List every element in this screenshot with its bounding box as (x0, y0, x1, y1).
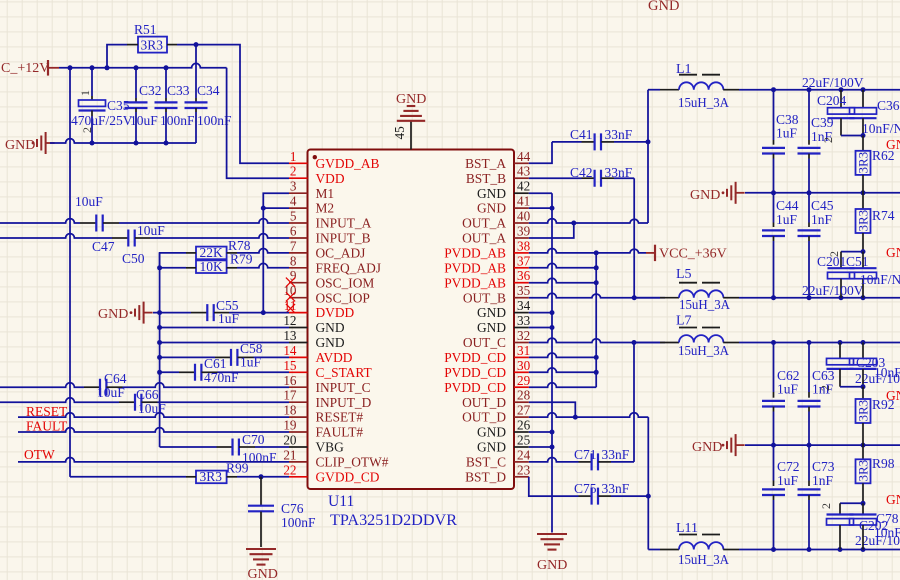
inductor L11 15uH_3A (660, 521, 739, 567)
svg-text:OC_ADJ: OC_ADJ (316, 246, 366, 261)
pin 2 (VDD) (289, 164, 345, 186)
wire GND return line (50, 139, 196, 143)
svg-text:GND: GND (690, 188, 720, 203)
power port VCC_+36V (646, 245, 727, 262)
wire R78 left (160, 253, 186, 268)
svg-text:1uF: 1uF (777, 473, 799, 488)
svg-text:1nF: 1nF (811, 212, 833, 227)
no-ERC mark pin 11 (286, 304, 295, 313)
svg-text:10uF: 10uF (130, 113, 158, 128)
svg-text:L5: L5 (676, 267, 692, 282)
svg-text:C44: C44 (776, 198, 799, 213)
wire OUT_B pin 35 to L5 (529, 293, 665, 300)
capacitor C201 22uF/100V electrolytic (802, 249, 869, 298)
svg-text:12: 12 (283, 313, 296, 328)
wire OUT_C pin 32 to L7 (529, 338, 665, 345)
node right GND rail junctions (550, 206, 555, 450)
svg-text:C42: C42 (570, 165, 593, 180)
pin 10 (OSC_IOP) (283, 283, 370, 305)
resistor R99 3R3 (186, 461, 249, 484)
svg-text:13: 13 (283, 328, 297, 343)
resistor R79 10K (186, 252, 253, 274)
svg-text:100nF: 100nF (281, 515, 316, 530)
svg-text:23: 23 (517, 462, 531, 477)
pin 26 (GND) (477, 418, 531, 440)
svg-text:GND: GND (477, 305, 506, 320)
capacitor C204 22uF/100V electrolytic (802, 75, 864, 143)
svg-text:PVDD_CD: PVDD_CD (444, 350, 506, 365)
capacitor C44 1uF (762, 193, 799, 298)
svg-text:C50: C50 (122, 251, 145, 266)
pin 32 (OUT_C) (463, 328, 530, 350)
wire R78 right to OC_ADJ pin 7 (237, 249, 289, 253)
node GND row junctions (771, 190, 866, 195)
svg-text:38: 38 (517, 238, 531, 253)
wire BST_D pin 23 jog (529, 477, 579, 496)
capacitor C51 10nF/NPO (850, 252, 900, 298)
svg-text:3R3: 3R3 (855, 152, 870, 174)
svg-text:31: 31 (517, 343, 530, 358)
svg-text:1nF: 1nF (812, 473, 834, 488)
ground GND mid-left (98, 302, 153, 324)
svg-text:C_+12V: C_+12V (1, 61, 49, 76)
capacitor C33 100nF (155, 68, 196, 143)
pin 16 (INPUT_C) (283, 373, 370, 395)
pin 27 (OUT_D) (462, 403, 530, 425)
pin 11 (DVDD) (284, 298, 355, 320)
net label FAULT (26, 419, 68, 434)
net label G (clipped) bottom (886, 492, 900, 507)
svg-text:OUT_A: OUT_A (462, 216, 506, 231)
pin 40 (OUT_A) (462, 209, 530, 231)
pin 29 (PVDD_CD) (444, 373, 530, 395)
pin 35 (OUT_B) (463, 283, 531, 305)
pin 3 (M1) (289, 179, 334, 201)
wire VDD pin 2 to +12V bus (227, 68, 289, 178)
pin 39 (OUT_A) (462, 224, 530, 246)
node top rail junctions (771, 87, 866, 92)
svg-text:C47: C47 (92, 239, 115, 254)
wire OUT_C rail (739, 342, 900, 344)
svg-text:10nF/N: 10nF/N (860, 272, 900, 287)
svg-text:GND: GND (316, 320, 345, 335)
svg-text:C51: C51 (846, 254, 869, 269)
svg-text:GN: GN (886, 137, 900, 152)
svg-text:1: 1 (290, 149, 297, 164)
svg-text:20: 20 (283, 433, 297, 448)
svg-text:BST_D: BST_D (465, 469, 506, 484)
wire M1 pin 3 (263, 193, 289, 208)
IC value TPA3251D2DDVR (330, 512, 458, 529)
svg-text:30: 30 (517, 358, 531, 373)
svg-text:21: 21 (283, 447, 296, 462)
svg-text:22uF/100V: 22uF/100V (802, 75, 864, 90)
wire C204/C36 node (841, 133, 866, 138)
svg-text:VBG: VBG (316, 440, 345, 455)
svg-text:C72: C72 (777, 459, 800, 474)
svg-text:OUT_C: OUT_C (463, 335, 506, 350)
wire C75 right to OUT_D (611, 495, 648, 497)
svg-text:VCC_+36V: VCC_+36V (659, 246, 727, 261)
svg-text:PVDD_CD: PVDD_CD (444, 365, 506, 380)
svg-text:C73: C73 (812, 459, 835, 474)
wire GND row mid-right (745, 192, 900, 194)
svg-text:10nF: 10nF (874, 365, 900, 380)
svg-text:22K: 22K (200, 245, 224, 260)
pin 5 (INPUT_A) (289, 209, 372, 231)
wire GND pin 12 (157, 325, 289, 330)
capacitor C32 10uF (125, 68, 162, 143)
net label G (clipped) lower (886, 388, 900, 403)
pin 17 (INPUT_D) (283, 388, 371, 410)
wire R51 left to bus (107, 45, 127, 68)
pin 15 (C_START) (283, 358, 371, 380)
svg-text:CLIP_OTW#: CLIP_OTW# (316, 455, 389, 470)
svg-text:OUT_A: OUT_A (462, 231, 506, 246)
wire OUT_A riser to L1 (647, 90, 649, 223)
pin 18 (RESET#) (283, 403, 363, 425)
wire OUT_A top rail (739, 89, 900, 91)
wire OUT_D rail (739, 549, 900, 551)
pin 12 (GND) (283, 313, 345, 335)
capacitor C73 1nF (798, 445, 835, 549)
no-ERC mark pin 9 (286, 278, 295, 287)
wire L7 input (634, 342, 660, 344)
pin 38 (PVDD_AB) (444, 238, 530, 260)
svg-text:M1: M1 (316, 186, 335, 201)
svg-text:19: 19 (283, 418, 297, 433)
wire OUT_D pins 28/27 (529, 402, 649, 419)
node BST_A/OUT_A junction (646, 139, 651, 144)
svg-text:OUT_B: OUT_B (463, 290, 506, 305)
wire BST_B pin 43 row (529, 177, 582, 179)
svg-text:VDD: VDD (316, 171, 345, 186)
svg-text:C66: C66 (136, 387, 159, 402)
capacitor C36 10nF/NPO (850, 90, 900, 136)
pin 31 (PVDD_CD) (444, 343, 530, 365)
wire BST_A pin 44 up (529, 142, 552, 163)
net label G (clipped) mid (886, 245, 900, 260)
power port C_+12V (1, 60, 59, 76)
svg-text:29: 29 (517, 373, 531, 388)
node +12V junctions (68, 65, 169, 70)
svg-text:1uF: 1uF (777, 382, 799, 397)
capacitor C70 100nF (217, 432, 278, 465)
wire PVDD rail (x=596) (594, 253, 599, 387)
node GND return junctions (90, 141, 169, 146)
svg-text:DVDD: DVDD (316, 305, 355, 320)
capacitor C50 10uF (112, 223, 165, 266)
pin 9 (OSC_IOM) (289, 268, 374, 290)
capacitor C76 100nF (248, 477, 316, 547)
pin 20 (VBG) (283, 433, 344, 455)
pin 19 (FAULT#) (283, 418, 363, 440)
pin 45 GND pad lead (392, 122, 411, 150)
svg-text:27: 27 (517, 403, 531, 418)
svg-text:33nF: 33nF (602, 481, 630, 496)
svg-text:1uF: 1uF (240, 355, 262, 370)
pin 4 (M2) (289, 194, 334, 216)
net label GND top edge (648, 0, 679, 14)
svg-text:42: 42 (517, 179, 530, 194)
wire BST_B to OUT_B (vertical x=634) (633, 178, 635, 298)
pin 41 (GND) (477, 194, 530, 216)
svg-text:7: 7 (290, 238, 297, 253)
wire R99 left from +12V drop (70, 476, 186, 478)
wire OUT_D drop to L11 (x=648) (646, 417, 651, 549)
svg-text:GN: GN (886, 245, 900, 260)
IC designator U11 (328, 493, 354, 510)
capacitor C34 100nF (185, 45, 233, 143)
svg-text:GND: GND (98, 307, 128, 322)
wire FAULT to pin 19 (18, 428, 289, 432)
wire AVDD row (157, 355, 289, 360)
node GND row junctions B (771, 443, 866, 448)
svg-text:AVDD: AVDD (316, 350, 353, 365)
svg-text:C32: C32 (139, 83, 162, 98)
svg-text:L1: L1 (676, 62, 692, 77)
wire C71 right to OUT_C (611, 461, 634, 463)
wire right GND rail (x=552) (551, 193, 553, 532)
svg-text:10nF: 10nF (874, 525, 900, 540)
svg-text:C71: C71 (574, 447, 597, 462)
ground GND pin 45 (flipped) (396, 92, 426, 121)
pin 34 (GND) (477, 298, 531, 320)
svg-text:17: 17 (283, 388, 297, 403)
svg-text:40: 40 (517, 209, 531, 224)
wire R51 right to GVDD_AB pin 1 (177, 42, 289, 163)
svg-text:FAULT#: FAULT# (316, 425, 364, 440)
resistor R62 3R3 (855, 136, 894, 193)
svg-text:37: 37 (517, 253, 531, 268)
svg-text:2: 2 (290, 164, 297, 179)
wire INPUT_D row (0, 398, 289, 402)
capacitor C71 33nF (574, 447, 630, 470)
svg-text:43: 43 (517, 164, 531, 179)
capacitor C63 1nF (798, 343, 835, 446)
svg-text:5: 5 (290, 209, 297, 224)
svg-text:33: 33 (517, 313, 531, 328)
pin 24 (BST_C) (466, 447, 531, 469)
svg-text:3R3: 3R3 (855, 210, 870, 232)
wire R79 right to FREQ_ADJ pin 8 (237, 263, 289, 267)
svg-text:OTW: OTW (24, 447, 55, 462)
capacitor C66 10uF (119, 387, 166, 416)
svg-text:32: 32 (517, 328, 530, 343)
wire PVDD_AB pins 38/37/36 (529, 248, 646, 285)
svg-text:GND: GND (5, 138, 35, 153)
inductor L5 15uH_3A (660, 267, 739, 312)
pin 28 (OUT_D) (462, 388, 530, 410)
capacitor C78 10nF (850, 503, 900, 549)
svg-text:C70: C70 (242, 432, 265, 447)
svg-text:24: 24 (517, 447, 531, 462)
svg-text:10uF: 10uF (97, 385, 125, 400)
svg-text:26: 26 (517, 418, 531, 433)
svg-text:33nF: 33nF (602, 447, 630, 462)
svg-text:PVDD_CD: PVDD_CD (444, 380, 506, 395)
svg-text:28: 28 (517, 388, 531, 403)
pin 30 (PVDD_CD) (444, 358, 530, 380)
pin 6 (INPUT_B) (289, 224, 371, 246)
svg-text:C45: C45 (811, 198, 834, 213)
inductor L7 15uH_3A (660, 314, 739, 359)
svg-text:TPA3251D2DDVR: TPA3251D2DDVR (330, 512, 458, 529)
net label G (clipped) upper (886, 137, 900, 152)
wire GND pin 13 (157, 340, 289, 345)
svg-text:15uH_3A: 15uH_3A (678, 552, 729, 567)
node OUT_C rail junctions (771, 340, 866, 345)
wire OUT_C drop to C71 (x=634) (633, 343, 635, 462)
svg-text:3: 3 (290, 179, 297, 194)
pin 22 (GVDD_CD) (283, 462, 379, 484)
svg-text:C35: C35 (107, 98, 130, 113)
svg-text:45: 45 (392, 126, 407, 140)
wire L5 input (634, 297, 660, 299)
resistor R51 3R3 (127, 22, 177, 53)
pin 8 (FREQ_ADJ) (289, 253, 381, 275)
resistor R98 3R3 (855, 445, 894, 503)
svg-text:INPUT_D: INPUT_D (316, 395, 372, 410)
svg-text:470uF/25V: 470uF/25V (71, 113, 133, 128)
svg-text:15uH_3A: 15uH_3A (678, 343, 729, 358)
capacitor C38 1uF (762, 90, 799, 193)
svg-text:C75: C75 (574, 481, 597, 496)
pin 7 (OC_ADJ) (289, 238, 365, 260)
capacitor C202 22uF/100V electrolytic (819, 501, 900, 550)
svg-text:33nF: 33nF (605, 127, 633, 142)
svg-text:C64: C64 (104, 371, 127, 386)
capacitor C62 1uF (762, 343, 800, 446)
svg-text:3R3: 3R3 (855, 400, 870, 422)
svg-text:GND: GND (477, 440, 506, 455)
wire OUT_B rail (739, 297, 900, 299)
wire M1/M2 tie to DVDD rail (261, 206, 289, 313)
svg-text:18: 18 (283, 403, 297, 418)
svg-text:GND: GND (477, 186, 506, 201)
wire OUT_A pins 40/39 (529, 219, 648, 238)
capacitor C42 33nF (570, 165, 634, 187)
ground GND top-left (5, 132, 55, 154)
capacitor C41 33nF (552, 127, 648, 150)
svg-text:41: 41 (517, 194, 530, 209)
pin 13 (GND) (283, 328, 345, 350)
svg-text:2: 2 (819, 503, 833, 509)
svg-text:R74: R74 (872, 208, 895, 223)
svg-text:L7: L7 (676, 314, 692, 329)
node OUT_B rail junctions (771, 295, 866, 300)
capacitor C64 10uF (84, 371, 127, 400)
pin 44 (BST_A) (465, 149, 531, 171)
wire BST_C pin 24 row (529, 457, 579, 461)
svg-text:C78: C78 (876, 511, 899, 526)
svg-text:C61: C61 (204, 356, 227, 371)
svg-text:100nF: 100nF (160, 113, 195, 128)
svg-text:U11: U11 (328, 493, 354, 510)
capacitor C75 33nF (574, 481, 630, 505)
svg-text:OSC_IOM: OSC_IOM (316, 275, 375, 290)
svg-text:36: 36 (517, 268, 531, 283)
wire +12V drop to R99 (vertical x=70) (69, 68, 71, 477)
svg-text:6: 6 (290, 224, 297, 239)
op-amp U1 — amplifier IC U11 TPA3251D2DDVR body (308, 150, 515, 490)
svg-text:PVDD_AB: PVDD_AB (444, 260, 506, 275)
net label RESET (26, 404, 68, 419)
svg-text:GND: GND (316, 335, 345, 350)
wire R79 left to GND rail (157, 265, 186, 270)
svg-text:R98: R98 (872, 456, 895, 471)
svg-text:GND: GND (648, 0, 679, 14)
svg-text:GN: GN (886, 388, 900, 403)
svg-text:1uF: 1uF (218, 311, 240, 326)
svg-text:INPUT_A: INPUT_A (316, 216, 372, 231)
wire INPUT_A row (0, 219, 289, 223)
resistor R78 22K (186, 238, 251, 260)
svg-text:14: 14 (283, 343, 297, 358)
svg-text:34: 34 (517, 298, 531, 313)
pin 37 (PVDD_AB) (444, 253, 530, 275)
pin 25 (GND) (477, 433, 531, 455)
wire GND pin 42 (529, 192, 552, 194)
svg-text:C76: C76 (281, 501, 304, 516)
svg-text:35: 35 (517, 283, 531, 298)
svg-text:GVDD_CD: GVDD_CD (316, 469, 380, 484)
svg-text:BST_C: BST_C (466, 455, 506, 470)
capacitor C58 1uF (215, 341, 263, 370)
pin 36 (PVDD_AB) (444, 268, 530, 290)
svg-text:GVDD_AB: GVDD_AB (316, 156, 380, 171)
svg-text:OUT_D: OUT_D (462, 410, 506, 425)
svg-text:INPUT_C: INPUT_C (316, 380, 371, 395)
svg-text:GND: GND (477, 320, 506, 335)
svg-text:10nF/NPO: 10nF/NPO (862, 121, 900, 136)
pin 43 (BST_B) (466, 164, 531, 186)
wire INPUT_C row (0, 383, 289, 387)
svg-text:15: 15 (283, 358, 297, 373)
svg-text:22uF/100V: 22uF/100V (802, 283, 864, 298)
svg-text:4: 4 (290, 194, 297, 209)
ground GND below C76 (246, 549, 278, 580)
wire left GND rail (x=159.6) (159, 253, 161, 447)
svg-text:R99: R99 (226, 461, 249, 476)
svg-text:PVDD_AB: PVDD_AB (444, 246, 506, 261)
ground GND below IC right (537, 534, 567, 573)
svg-text:GND: GND (477, 425, 506, 440)
pin 42 (GND) (477, 179, 530, 201)
svg-text:2: 2 (821, 137, 835, 143)
net label OTW (24, 447, 55, 462)
node OUT_D rail junctions (771, 547, 866, 552)
svg-text:10uF: 10uF (137, 223, 165, 238)
svg-text:25: 25 (517, 433, 531, 448)
pin 1 (GVDD_AB) (289, 149, 380, 171)
svg-text:R79: R79 (230, 252, 253, 267)
wire R99 right to GVDD_CD pin 22 (237, 474, 289, 479)
svg-text:GN: GN (886, 492, 900, 507)
pin 21 (CLIP_OTW#) (283, 447, 388, 469)
wire GND pin 41 (529, 207, 552, 209)
svg-text:8: 8 (290, 253, 297, 268)
pin 23 (BST_D) (465, 462, 531, 484)
svg-text:C204: C204 (817, 93, 847, 108)
svg-text:39: 39 (517, 224, 531, 239)
svg-text:PVDD_AB: PVDD_AB (444, 275, 506, 290)
resistor R74 3R3 (855, 193, 894, 252)
capacitor C35 470uF/25V electrolytic (71, 68, 133, 143)
capacitor C45 1nF (798, 193, 834, 298)
svg-text:BST_B: BST_B (466, 171, 506, 186)
wire VBG decoupling row (160, 446, 289, 448)
